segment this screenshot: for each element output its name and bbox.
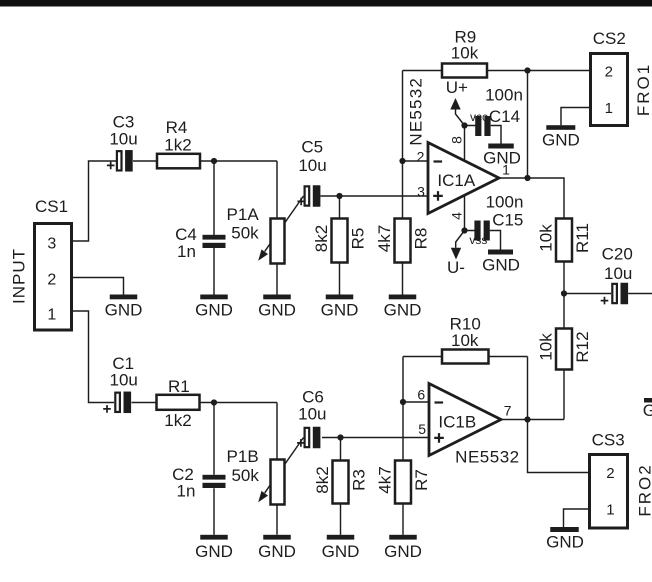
svg-text:GND: GND bbox=[546, 532, 584, 551]
svg-text:10u: 10u bbox=[110, 371, 138, 390]
svg-text:NE5532: NE5532 bbox=[455, 447, 519, 466]
svg-text:GND: GND bbox=[195, 300, 233, 319]
svg-text:GND: GND bbox=[258, 542, 296, 561]
svg-text:FRO2: FRO2 bbox=[635, 463, 652, 516]
svg-text:R8: R8 bbox=[412, 228, 431, 250]
svg-text:GND: GND bbox=[643, 401, 652, 420]
svg-text:10k: 10k bbox=[451, 331, 479, 350]
svg-text:U+: U+ bbox=[446, 78, 468, 97]
svg-text:IC1A: IC1A bbox=[437, 171, 475, 190]
svg-text:2: 2 bbox=[605, 63, 613, 80]
svg-text:1: 1 bbox=[606, 502, 614, 519]
svg-text:50k: 50k bbox=[231, 466, 259, 485]
svg-text:R7: R7 bbox=[412, 469, 431, 491]
svg-text:1: 1 bbox=[47, 307, 56, 324]
svg-text:100n: 100n bbox=[485, 85, 523, 104]
svg-text:1: 1 bbox=[502, 161, 510, 177]
svg-text:P1A: P1A bbox=[227, 205, 260, 224]
svg-text:10u: 10u bbox=[298, 405, 326, 424]
svg-text:GND: GND bbox=[195, 542, 233, 561]
svg-text:8: 8 bbox=[449, 136, 465, 144]
svg-text:1n: 1n bbox=[177, 242, 196, 261]
svg-text:10k: 10k bbox=[451, 44, 479, 63]
svg-text:2: 2 bbox=[417, 149, 425, 165]
svg-text:3: 3 bbox=[417, 184, 425, 200]
svg-text:3: 3 bbox=[47, 235, 56, 252]
svg-text:2: 2 bbox=[47, 271, 56, 288]
svg-text:GND: GND bbox=[105, 300, 143, 319]
svg-text:1n: 1n bbox=[177, 481, 196, 500]
svg-text:C15: C15 bbox=[492, 211, 523, 230]
svg-text:P1B: P1B bbox=[227, 447, 259, 466]
svg-text:GND: GND bbox=[482, 256, 520, 275]
svg-text:8k2: 8k2 bbox=[312, 225, 331, 252]
svg-text:8k2: 8k2 bbox=[313, 466, 332, 493]
svg-text:GND: GND bbox=[321, 300, 359, 319]
svg-text:INPUT: INPUT bbox=[10, 248, 29, 304]
svg-text:R3: R3 bbox=[350, 469, 369, 491]
svg-text:C14: C14 bbox=[489, 107, 520, 126]
svg-text:10k: 10k bbox=[537, 224, 556, 252]
svg-text:R12: R12 bbox=[573, 331, 592, 362]
svg-text:10u: 10u bbox=[604, 264, 632, 283]
svg-text:vss: vss bbox=[469, 233, 487, 247]
svg-text:R4: R4 bbox=[166, 118, 188, 137]
svg-text:NE5532: NE5532 bbox=[407, 77, 426, 146]
svg-text:GND: GND bbox=[542, 130, 580, 149]
svg-text:GND: GND bbox=[258, 300, 296, 319]
svg-text:100n: 100n bbox=[486, 193, 524, 212]
svg-text:C5: C5 bbox=[301, 137, 323, 156]
svg-text:5: 5 bbox=[418, 421, 426, 437]
svg-text:GND: GND bbox=[322, 542, 360, 561]
svg-text:7: 7 bbox=[504, 403, 512, 419]
svg-text:vcc: vcc bbox=[470, 110, 488, 124]
svg-text:CS3: CS3 bbox=[592, 430, 625, 449]
svg-text:R11: R11 bbox=[573, 223, 592, 253]
svg-text:10u: 10u bbox=[298, 156, 326, 175]
svg-text:4k7: 4k7 bbox=[376, 466, 395, 493]
svg-text:R1: R1 bbox=[168, 377, 190, 396]
svg-text:10k: 10k bbox=[537, 333, 556, 361]
svg-text:1k2: 1k2 bbox=[164, 411, 191, 430]
svg-text:GND: GND bbox=[384, 300, 422, 319]
svg-text:10u: 10u bbox=[109, 129, 137, 148]
svg-text:C20: C20 bbox=[602, 245, 633, 264]
svg-text:2: 2 bbox=[606, 465, 614, 482]
svg-text:4: 4 bbox=[449, 212, 465, 220]
svg-text:IC1B: IC1B bbox=[438, 413, 476, 432]
svg-text:FRO1: FRO1 bbox=[634, 63, 652, 116]
svg-text:50k: 50k bbox=[231, 223, 259, 242]
svg-text:1k2: 1k2 bbox=[164, 135, 191, 154]
svg-text:CS2: CS2 bbox=[593, 29, 626, 48]
svg-text:CS1: CS1 bbox=[35, 197, 68, 216]
svg-text:R5: R5 bbox=[349, 228, 368, 250]
svg-text:U-: U- bbox=[447, 258, 465, 277]
svg-text:1: 1 bbox=[605, 100, 613, 117]
svg-text:4k7: 4k7 bbox=[375, 225, 394, 252]
svg-text:GND: GND bbox=[384, 542, 422, 561]
svg-text:6: 6 bbox=[417, 386, 425, 402]
